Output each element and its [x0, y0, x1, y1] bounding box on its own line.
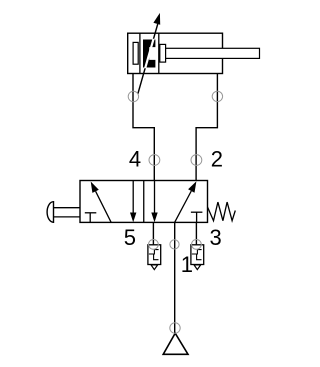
silencer S2 outlet triangle: [194, 265, 201, 270]
wire: valve port 1 down to air supply: [174, 222, 176, 333]
svg-text:4: 4: [129, 147, 141, 172]
cylinder A1 body: [128, 33, 223, 73]
svg-text:5: 5: [124, 225, 136, 250]
wire: cylinder right port to valve port 2: [196, 74, 217, 181]
connection circle: cylinder right port: [212, 91, 222, 101]
silencer S1 outlet triangle: [151, 265, 158, 270]
cylinder A1 piston right line: [158, 33, 160, 73]
cylinder A1 cushion bracket (black): [143, 40, 155, 68]
valve V1 return spring: [208, 202, 236, 221]
svg-text:3: 3: [209, 225, 221, 250]
valve V1 left box: blocked port T (5): [85, 213, 97, 223]
wire: cylinder left port to valve port 4: [133, 74, 154, 181]
connection circle: valve port 4: [149, 155, 160, 166]
connection circle: silencer S2: [192, 240, 202, 250]
connection circle: air supply: [170, 323, 180, 333]
connection circle: silencer S1: [149, 240, 159, 250]
valve V1 push-button actuator cap: [47, 202, 53, 223]
valve V1 left box: flow arrow 2->3 (down): [130, 181, 136, 223]
svg-text:1: 1: [181, 252, 193, 277]
silencer S1 inner baffle: [149, 250, 159, 260]
valve V1 right box: flow arrow 4->5 (down): [151, 181, 157, 223]
cylinder A1 left cushion sleeve: [133, 42, 138, 64]
silencer S2 inner baffle: [192, 250, 202, 260]
svg-text:2: 2: [211, 147, 223, 172]
wire: valve port 3 stem to silencer: [195, 222, 197, 244]
connection circle: valve port 2: [191, 155, 202, 166]
cylinder A1 piston rod: [166, 48, 260, 58]
cylinder A1 adjustable-cushioning arrow: [138, 13, 160, 94]
valve V1 left box: flow arrow 1->4: [91, 182, 111, 223]
air supply triangle: [163, 333, 188, 354]
white slash of adjustability arrow over bracket: [138, 17, 160, 94]
silencer S2 (port 3) body: [191, 245, 204, 265]
valve V1 body: [80, 181, 208, 223]
connection circle: valve port 1: [170, 240, 179, 249]
cylinder A1 piston left line: [139, 33, 141, 73]
wire: valve port 5 stem to silencer: [152, 222, 154, 244]
valve V1 push-button stem: [54, 207, 81, 209]
valve V1 position divider: [143, 181, 145, 223]
silencer S1 (port 5) body: [148, 245, 161, 265]
cylinder A1 rod boss: [160, 44, 166, 62]
connection circle: cylinder left port: [128, 91, 138, 101]
valve V1 right box: flow arrow 1->2: [175, 181, 197, 222]
valve V1 right box: blocked port T (3): [191, 212, 203, 222]
